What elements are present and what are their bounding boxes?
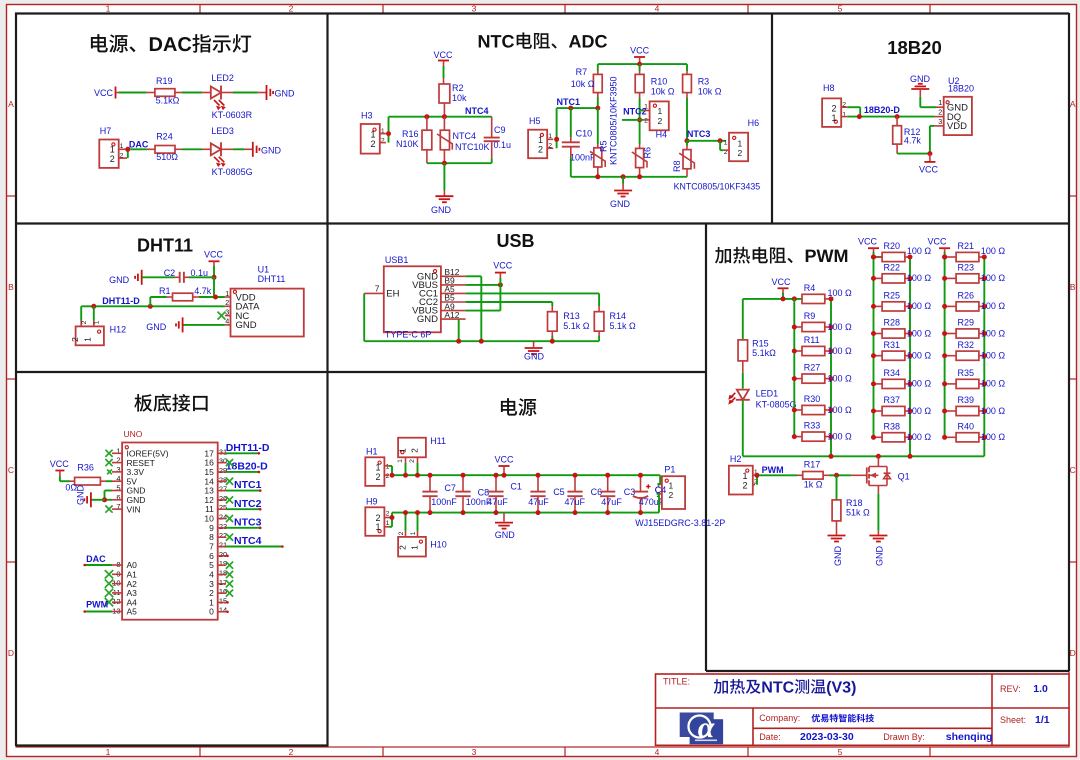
svg-text:1: 1: [938, 98, 942, 107]
svg-text:28: 28: [219, 475, 227, 484]
svg-text:16: 16: [219, 587, 227, 596]
svg-text:2: 2: [81, 320, 88, 324]
svg-text:2: 2: [398, 545, 408, 550]
svg-text:2: 2: [538, 145, 543, 155]
svg-text:LED3: LED3: [211, 126, 234, 136]
svg-text:10k Ω: 10k Ω: [571, 79, 595, 89]
svg-text:1k Ω: 1k Ω: [804, 479, 823, 489]
svg-text:1: 1: [644, 104, 648, 111]
svg-text:47uF: 47uF: [528, 497, 549, 507]
svg-text:100 Ω: 100 Ω: [828, 373, 853, 383]
svg-text:GND: GND: [431, 205, 452, 215]
svg-text:GND: GND: [875, 546, 885, 567]
svg-text:25: 25: [219, 503, 227, 512]
svg-text:PWM: PWM: [86, 600, 108, 610]
svg-text:TYPE-C 6P: TYPE-C 6P: [385, 330, 432, 340]
svg-text:2: 2: [386, 473, 390, 480]
svg-text:2: 2: [289, 747, 294, 757]
svg-text:100 Ω: 100 Ω: [828, 288, 853, 298]
svg-text:15: 15: [219, 596, 227, 605]
svg-text:2: 2: [409, 459, 416, 463]
svg-text:1: 1: [742, 471, 747, 481]
svg-text:GND: GND: [610, 199, 631, 209]
svg-text:19: 19: [219, 559, 227, 568]
svg-text:1.0: 1.0: [1033, 683, 1048, 695]
svg-text:5: 5: [838, 4, 843, 14]
svg-text:shenqing: shenqing: [946, 731, 993, 743]
svg-text:A12: A12: [444, 310, 459, 320]
svg-text:R19: R19: [156, 76, 173, 86]
svg-text:R22: R22: [884, 263, 901, 273]
svg-text:VDD: VDD: [947, 121, 967, 132]
svg-text:2: 2: [644, 118, 648, 125]
svg-text:H2: H2: [730, 454, 742, 464]
svg-text:5: 5: [838, 747, 843, 757]
svg-text:LED1: LED1: [756, 389, 779, 399]
svg-text:U1: U1: [258, 265, 270, 275]
svg-text:UNO: UNO: [124, 429, 143, 439]
svg-text:2: 2: [375, 472, 380, 482]
svg-text:100 Ω: 100 Ω: [981, 406, 1006, 416]
svg-text:47uF: 47uF: [565, 497, 586, 507]
svg-text:18B20-D: 18B20-D: [226, 461, 268, 473]
svg-text:10k Ω: 10k Ω: [698, 86, 722, 96]
svg-text:NTC4: NTC4: [234, 535, 262, 547]
svg-text:1: 1: [410, 545, 420, 550]
svg-text:2: 2: [658, 116, 663, 126]
svg-text:R31: R31: [884, 340, 901, 350]
svg-text:VCC: VCC: [494, 455, 514, 465]
svg-text:1: 1: [386, 463, 390, 470]
svg-text:GND: GND: [146, 322, 167, 332]
svg-text:Drawn By:: Drawn By:: [883, 732, 925, 742]
svg-text:TITLE:: TITLE:: [663, 677, 690, 687]
svg-text:1: 1: [397, 459, 404, 463]
svg-text:100 Ω: 100 Ω: [981, 351, 1006, 361]
svg-text:4.7k: 4.7k: [904, 135, 922, 145]
svg-text:3: 3: [472, 4, 477, 14]
svg-text:2: 2: [289, 4, 294, 14]
svg-text:C4: C4: [655, 485, 667, 495]
svg-text:R2: R2: [452, 83, 464, 93]
svg-text:R17: R17: [804, 459, 821, 469]
svg-text:27: 27: [219, 485, 227, 494]
svg-text:R8: R8: [672, 160, 682, 172]
svg-text:A: A: [8, 99, 14, 109]
svg-text:N10K: N10K: [396, 139, 419, 149]
svg-text:D: D: [1070, 648, 1076, 658]
svg-text:Date:: Date:: [759, 732, 781, 742]
svg-text:B: B: [8, 282, 14, 292]
svg-text:USB: USB: [496, 231, 534, 251]
svg-text:VCC: VCC: [50, 459, 70, 469]
svg-text:510Ω: 510Ω: [156, 152, 178, 162]
svg-text:B: B: [1070, 282, 1076, 292]
svg-text:0: 0: [209, 607, 214, 617]
svg-text:1: 1: [724, 139, 728, 146]
svg-text:VCC: VCC: [919, 165, 939, 175]
svg-text:C2: C2: [164, 268, 176, 278]
svg-text:R14: R14: [610, 311, 627, 321]
svg-text:1: 1: [738, 138, 743, 148]
svg-text:14: 14: [219, 606, 227, 615]
svg-text:0.1u: 0.1u: [494, 140, 512, 150]
svg-text:2023-03-30: 2023-03-30: [800, 731, 854, 743]
svg-text:2: 2: [938, 108, 942, 117]
svg-text:GND: GND: [76, 485, 86, 506]
svg-text:1: 1: [538, 135, 543, 145]
svg-text:VCC: VCC: [630, 46, 650, 56]
svg-text:EH: EH: [386, 289, 399, 300]
svg-text:R35: R35: [958, 368, 975, 378]
svg-text:A: A: [1070, 99, 1076, 109]
svg-text:R4: R4: [804, 283, 816, 293]
svg-text:3: 3: [938, 117, 942, 126]
svg-text:C1: C1: [510, 481, 522, 491]
svg-text:100 Ω: 100 Ω: [907, 406, 932, 416]
svg-text:1: 1: [83, 337, 93, 342]
svg-text:100 Ω: 100 Ω: [981, 273, 1006, 283]
svg-text:R16: R16: [402, 129, 419, 139]
svg-text:1: 1: [370, 130, 375, 140]
svg-text:VIN: VIN: [127, 504, 141, 514]
svg-text:2: 2: [70, 337, 80, 342]
svg-text:100 Ω: 100 Ω: [907, 351, 932, 361]
svg-text:R39: R39: [958, 395, 975, 405]
svg-text:100 Ω: 100 Ω: [981, 379, 1006, 389]
svg-text:VCC: VCC: [493, 260, 513, 270]
svg-text:NTC3: NTC3: [234, 516, 262, 528]
svg-text:5.1kΩ: 5.1kΩ: [752, 348, 776, 358]
svg-text:GND: GND: [910, 74, 931, 84]
svg-text:24: 24: [219, 513, 227, 522]
svg-text:R20: R20: [884, 241, 901, 251]
svg-text:VCC: VCC: [858, 236, 878, 246]
svg-text:17: 17: [219, 578, 227, 587]
svg-text:R28: R28: [884, 318, 901, 328]
svg-text:100 Ω: 100 Ω: [981, 432, 1006, 442]
svg-text:R27: R27: [804, 363, 821, 373]
svg-text:USB1: USB1: [385, 255, 409, 265]
svg-text:1: 1: [106, 4, 111, 14]
svg-text:5.1k Ω: 5.1k Ω: [563, 321, 590, 331]
svg-text:2: 2: [738, 148, 743, 158]
svg-text:H3: H3: [361, 110, 373, 120]
svg-text:1: 1: [410, 531, 417, 535]
svg-text:GND: GND: [261, 146, 282, 156]
svg-text:5.1k Ω: 5.1k Ω: [610, 321, 637, 331]
svg-text:1: 1: [375, 522, 380, 532]
svg-text:KT-0805G: KT-0805G: [212, 167, 253, 177]
svg-text:C: C: [8, 465, 14, 475]
svg-text:H4: H4: [656, 130, 668, 140]
svg-text:REV:: REV:: [1000, 684, 1021, 694]
svg-text:NTC1: NTC1: [234, 479, 262, 491]
svg-text:H5: H5: [529, 116, 541, 126]
svg-text:10k: 10k: [452, 93, 467, 103]
svg-text:R23: R23: [958, 263, 975, 273]
svg-text:H7: H7: [100, 126, 112, 136]
svg-text:100nF: 100nF: [431, 497, 457, 507]
svg-text:2: 2: [370, 139, 375, 149]
svg-text:20: 20: [219, 550, 227, 559]
svg-text:18B20-D: 18B20-D: [864, 105, 901, 115]
svg-text:R32: R32: [958, 340, 975, 350]
svg-text:0.1u: 0.1u: [191, 268, 209, 278]
svg-text:DHT11-D: DHT11-D: [226, 442, 270, 454]
svg-text:R11: R11: [804, 335, 820, 345]
svg-text:2: 2: [410, 448, 420, 453]
svg-text:C7: C7: [444, 483, 456, 493]
svg-text:VCC: VCC: [204, 250, 224, 260]
svg-text:R6: R6: [643, 147, 653, 159]
svg-text:1: 1: [110, 145, 115, 155]
svg-text:DHT11: DHT11: [137, 236, 193, 256]
svg-text:VCC: VCC: [94, 88, 114, 98]
svg-text:100 Ω: 100 Ω: [828, 322, 853, 332]
svg-text:A5: A5: [127, 607, 138, 617]
svg-text:VCC: VCC: [771, 277, 791, 287]
svg-text:H10: H10: [430, 540, 447, 550]
svg-text:100 Ω: 100 Ω: [907, 432, 932, 442]
svg-text:α: α: [698, 711, 715, 744]
svg-text:D: D: [8, 648, 14, 658]
svg-text:2: 2: [669, 490, 674, 500]
svg-text:Company:: Company:: [759, 713, 800, 723]
svg-text:R33: R33: [804, 421, 821, 431]
svg-text:47uF: 47uF: [487, 497, 508, 507]
svg-text:GND: GND: [495, 530, 516, 540]
svg-text:5.1kΩ: 5.1kΩ: [156, 96, 180, 106]
svg-text:H11: H11: [430, 436, 446, 446]
svg-text:26: 26: [219, 494, 227, 503]
svg-text:R15: R15: [752, 338, 769, 348]
svg-text:100 Ω: 100 Ω: [828, 346, 853, 356]
svg-text:R38: R38: [884, 421, 901, 431]
svg-text:100 Ω: 100 Ω: [828, 431, 853, 441]
svg-text:1: 1: [106, 747, 111, 757]
svg-text:NTC2: NTC2: [234, 498, 262, 510]
svg-text:3: 3: [472, 747, 477, 757]
svg-text:DAC: DAC: [129, 140, 149, 150]
svg-text:R9: R9: [804, 311, 816, 321]
svg-text:100 Ω: 100 Ω: [907, 246, 932, 256]
svg-text:1: 1: [831, 113, 836, 123]
svg-text:C: C: [1070, 465, 1076, 475]
svg-text:GND: GND: [275, 89, 296, 99]
svg-text:PWM: PWM: [762, 465, 784, 475]
svg-text:LED2: LED2: [211, 73, 234, 83]
svg-text:R10: R10: [651, 77, 668, 87]
svg-text:R5: R5: [599, 140, 609, 152]
svg-text:R26: R26: [958, 291, 975, 301]
svg-text:R30: R30: [804, 394, 821, 404]
svg-text:C10: C10: [576, 128, 593, 138]
svg-text:51k Ω: 51k Ω: [846, 507, 870, 517]
svg-text:R34: R34: [884, 368, 901, 378]
svg-text:R1: R1: [159, 286, 171, 296]
svg-text:R36: R36: [77, 462, 94, 472]
svg-text:DAC: DAC: [86, 554, 106, 564]
svg-text:100 Ω: 100 Ω: [907, 273, 932, 283]
svg-text:VCC: VCC: [433, 50, 453, 60]
svg-text:DHT11: DHT11: [258, 274, 286, 284]
svg-text:NTC4: NTC4: [465, 106, 489, 116]
svg-text:470uF: 470uF: [639, 497, 665, 507]
svg-text:18B20: 18B20: [887, 37, 942, 58]
svg-text:2: 2: [398, 531, 405, 535]
svg-text:GND: GND: [109, 275, 130, 285]
svg-text:100 Ω: 100 Ω: [907, 301, 932, 311]
svg-text:GND: GND: [417, 314, 438, 325]
svg-text:1: 1: [375, 463, 380, 473]
svg-text:100 Ω: 100 Ω: [981, 301, 1006, 311]
svg-text:21: 21: [219, 541, 227, 550]
svg-text:H9: H9: [366, 496, 378, 506]
svg-text:18B20: 18B20: [948, 84, 974, 94]
svg-text:R37: R37: [884, 395, 901, 405]
svg-text:2: 2: [742, 481, 747, 491]
svg-text:KT-0805G: KT-0805G: [756, 399, 797, 409]
svg-text:2: 2: [831, 103, 836, 113]
svg-text:4: 4: [655, 747, 660, 757]
svg-text:KNTC0805/10KF3950: KNTC0805/10KF3950: [609, 76, 619, 165]
svg-text:H8: H8: [823, 83, 835, 93]
svg-text:100 Ω: 100 Ω: [828, 405, 853, 415]
svg-text:H6: H6: [748, 118, 760, 128]
svg-text:22: 22: [219, 531, 227, 540]
svg-text:Q1: Q1: [898, 472, 910, 482]
svg-text:R24: R24: [156, 131, 173, 141]
svg-text:GND: GND: [524, 352, 545, 362]
svg-text:DHT11-D: DHT11-D: [102, 296, 140, 306]
svg-text:1: 1: [398, 448, 408, 453]
svg-text:4.7k: 4.7k: [194, 286, 212, 296]
svg-text:100nF: 100nF: [570, 152, 596, 162]
svg-text:10k Ω: 10k Ω: [651, 86, 675, 96]
svg-text:GND: GND: [236, 320, 257, 331]
svg-text:R21: R21: [958, 241, 975, 251]
svg-text:R25: R25: [884, 291, 901, 301]
svg-text:C9: C9: [494, 125, 506, 135]
svg-text:H12: H12: [110, 325, 127, 335]
svg-text:100 Ω: 100 Ω: [981, 246, 1006, 256]
svg-text:100 Ω: 100 Ω: [907, 328, 932, 338]
svg-text:2: 2: [110, 154, 115, 164]
svg-text:R7: R7: [576, 67, 588, 77]
svg-text:1: 1: [94, 320, 101, 324]
svg-text:4: 4: [655, 4, 660, 14]
svg-text:R40: R40: [958, 421, 975, 431]
svg-text:7: 7: [375, 284, 380, 294]
svg-text:100 Ω: 100 Ω: [981, 328, 1006, 338]
svg-text:C5: C5: [553, 487, 565, 497]
svg-text:NTC1: NTC1: [557, 97, 581, 107]
svg-text:H1: H1: [366, 447, 378, 457]
svg-text:P1: P1: [664, 465, 675, 475]
svg-text:WJ15EDGRC-3.81-2P: WJ15EDGRC-3.81-2P: [635, 518, 725, 528]
svg-text:1: 1: [669, 480, 674, 490]
svg-text:1/1: 1/1: [1035, 714, 1050, 726]
svg-text:R29: R29: [958, 318, 975, 328]
svg-text:47uF: 47uF: [601, 497, 622, 507]
svg-text:VCC: VCC: [927, 236, 947, 246]
svg-text:R13: R13: [563, 311, 580, 321]
svg-text:Sheet:: Sheet:: [1000, 715, 1026, 725]
svg-text:R3: R3: [698, 77, 710, 87]
svg-text:100 Ω: 100 Ω: [907, 379, 932, 389]
svg-text:18: 18: [219, 568, 227, 577]
svg-text:KNTC0805/10KF3435: KNTC0805/10KF3435: [674, 182, 761, 192]
svg-text:NTC10K: NTC10K: [455, 142, 490, 152]
svg-text:23: 23: [219, 522, 227, 531]
svg-text:1: 1: [658, 106, 663, 116]
svg-text:KT-0603R: KT-0603R: [212, 110, 253, 120]
svg-text:NTC4: NTC4: [453, 131, 477, 141]
svg-text:NTC3: NTC3: [687, 129, 711, 139]
svg-text:GND: GND: [833, 546, 843, 567]
